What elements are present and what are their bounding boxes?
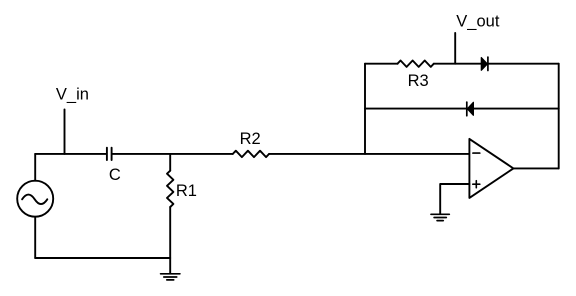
wire: [35, 257, 170, 259]
resistor R1: [167, 154, 197, 207]
node V_in: [56, 85, 89, 153]
wire: [35, 153, 106, 155]
wire: [488, 63, 559, 65]
resistor R2: [233, 130, 269, 157]
wire: [34, 154, 36, 181]
wire: [434, 63, 482, 65]
wire: [34, 217, 36, 258]
svg-text:R1: R1: [176, 182, 197, 200]
svg-text:R3: R3: [408, 72, 429, 90]
ground: [431, 214, 449, 220]
wire: [269, 153, 469, 155]
wire: [513, 167, 558, 169]
wire: [473, 108, 558, 110]
wire: [440, 184, 469, 214]
svg-text:V_out: V_out: [456, 13, 500, 31]
wire: [364, 64, 366, 154]
svg-text:V_in: V_in: [56, 85, 89, 103]
ground: [161, 274, 180, 280]
wire: [365, 108, 467, 110]
resistor R3: [398, 61, 434, 91]
wire: [112, 153, 233, 155]
wire: [169, 207, 171, 273]
capacitor C: [107, 148, 121, 184]
wire: [558, 64, 560, 169]
svg-text:C: C: [109, 166, 121, 184]
node V_out: [455, 13, 500, 64]
svg-text:R2: R2: [240, 130, 261, 148]
diode D2: [467, 102, 474, 116]
wire: [365, 63, 398, 65]
diode D1: [481, 57, 488, 70]
voltage source V1: [17, 181, 53, 217]
op-amp U1: [469, 139, 513, 198]
